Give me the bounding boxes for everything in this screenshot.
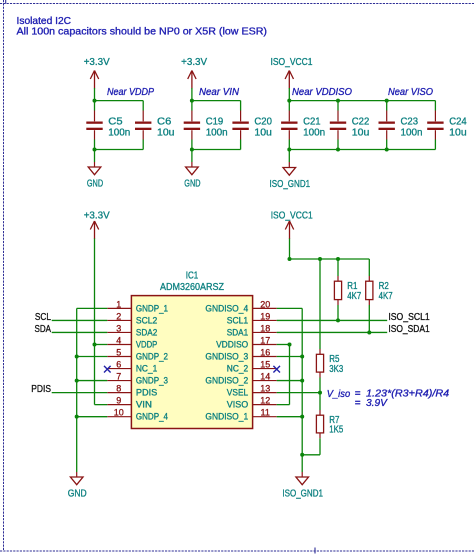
svg-text:GNDISO_1: GNDISO_1 (205, 412, 248, 422)
svg-text:C24: C24 (449, 116, 467, 127)
svg-text:GNDP_1: GNDP_1 (136, 303, 168, 313)
svg-text:C6: C6 (157, 116, 172, 127)
svg-text:ISO_SCL1: ISO_SCL1 (388, 312, 430, 323)
svg-text:All 100n capacitors should be: All 100n capacitors should be NP0 or X5R… (17, 26, 268, 37)
svg-text:3.9V: 3.9V (366, 398, 388, 409)
svg-text:20: 20 (260, 299, 270, 309)
svg-text:4: 4 (116, 335, 121, 345)
svg-text:100n: 100n (108, 127, 130, 138)
svg-text:10: 10 (114, 408, 124, 418)
svg-text:1K5: 1K5 (329, 425, 343, 436)
svg-text:GND: GND (184, 179, 200, 190)
svg-text:Near VISO: Near VISO (388, 87, 433, 98)
svg-text:C21: C21 (303, 116, 321, 127)
svg-text:7: 7 (116, 372, 121, 382)
svg-text:GNDP_3: GNDP_3 (136, 376, 168, 386)
svg-text:C23: C23 (401, 116, 419, 127)
svg-text:18: 18 (260, 323, 270, 333)
svg-text:IC1: IC1 (186, 271, 199, 282)
svg-text:14: 14 (260, 372, 270, 382)
svg-text:100n: 100n (401, 127, 423, 138)
svg-text:GNDISO_3: GNDISO_3 (205, 352, 248, 362)
svg-text:GND: GND (68, 489, 87, 500)
svg-text:12: 12 (260, 396, 270, 406)
svg-text:10u: 10u (449, 127, 467, 138)
svg-text:SCL: SCL (35, 312, 51, 323)
svg-text:9: 9 (116, 396, 121, 406)
svg-text:100n: 100n (303, 127, 325, 138)
svg-text:4K7: 4K7 (379, 291, 393, 302)
svg-text:10u: 10u (157, 127, 175, 138)
svg-text:VISO: VISO (227, 400, 249, 410)
svg-text:GNDISO_2: GNDISO_2 (205, 376, 248, 386)
svg-text:+3.3V: +3.3V (181, 57, 207, 68)
svg-text:3K3: 3K3 (329, 364, 343, 375)
svg-text:VSEL: VSEL (227, 388, 248, 398)
svg-text:=: = (355, 398, 361, 409)
svg-text:6: 6 (116, 360, 121, 370)
svg-text:10u: 10u (352, 127, 370, 138)
svg-text:SDA: SDA (35, 324, 52, 335)
svg-text:V_iso: V_iso (327, 389, 351, 400)
svg-text:10u: 10u (254, 127, 272, 138)
svg-text:Near VDDISO: Near VDDISO (292, 87, 352, 98)
svg-text:16: 16 (260, 348, 270, 358)
svg-text:C22: C22 (352, 116, 370, 127)
svg-text:+3.3V: +3.3V (84, 57, 110, 68)
svg-text:Near VIN: Near VIN (199, 87, 240, 98)
svg-text:Near VDDP: Near VDDP (107, 87, 154, 98)
svg-text:8: 8 (116, 384, 121, 394)
svg-text:C20: C20 (254, 116, 272, 127)
svg-text:C5: C5 (108, 116, 123, 127)
svg-text:NC_1: NC_1 (136, 364, 157, 374)
svg-text:VDDP: VDDP (136, 339, 158, 349)
svg-text:13: 13 (260, 384, 270, 394)
svg-text:VDDISO: VDDISO (216, 339, 248, 349)
svg-text:4K7: 4K7 (347, 291, 361, 302)
svg-text:ISO_VCC1: ISO_VCC1 (271, 57, 313, 68)
svg-text:1: 1 (116, 299, 121, 309)
svg-text:ISO_SDA1: ISO_SDA1 (388, 324, 430, 335)
svg-text:PDIS: PDIS (136, 388, 158, 398)
svg-text:ISO_GND1: ISO_GND1 (282, 489, 323, 500)
svg-text:NC_2: NC_2 (227, 364, 248, 374)
svg-text:GND: GND (87, 179, 103, 190)
svg-text:VIN: VIN (136, 400, 152, 410)
svg-text:11: 11 (261, 408, 270, 418)
svg-text:SCL1: SCL1 (227, 315, 248, 325)
svg-text:ADM3260ARSZ: ADM3260ARSZ (160, 282, 224, 293)
svg-text:19: 19 (260, 311, 270, 321)
svg-text:GNDP_4: GNDP_4 (136, 412, 168, 422)
svg-text:15: 15 (260, 360, 270, 370)
svg-text:SDA2: SDA2 (136, 327, 157, 337)
svg-text:5: 5 (116, 348, 121, 358)
svg-text:SDA1: SDA1 (227, 327, 248, 337)
svg-text:100n: 100n (206, 127, 228, 138)
svg-text:GNDP_2: GNDP_2 (136, 352, 168, 362)
svg-text:C19: C19 (206, 116, 224, 127)
svg-text:GNDISO_4: GNDISO_4 (205, 303, 248, 313)
svg-text:17: 17 (260, 335, 270, 345)
svg-text:SCL2: SCL2 (136, 315, 157, 325)
svg-text:+3.3V: +3.3V (84, 210, 110, 221)
svg-text:2: 2 (116, 311, 121, 321)
svg-text:ISO_VCC1: ISO_VCC1 (271, 210, 313, 221)
svg-text:3: 3 (116, 323, 121, 333)
svg-text:ISO_GND1: ISO_GND1 (270, 179, 311, 190)
svg-text:PDIS: PDIS (31, 384, 51, 395)
